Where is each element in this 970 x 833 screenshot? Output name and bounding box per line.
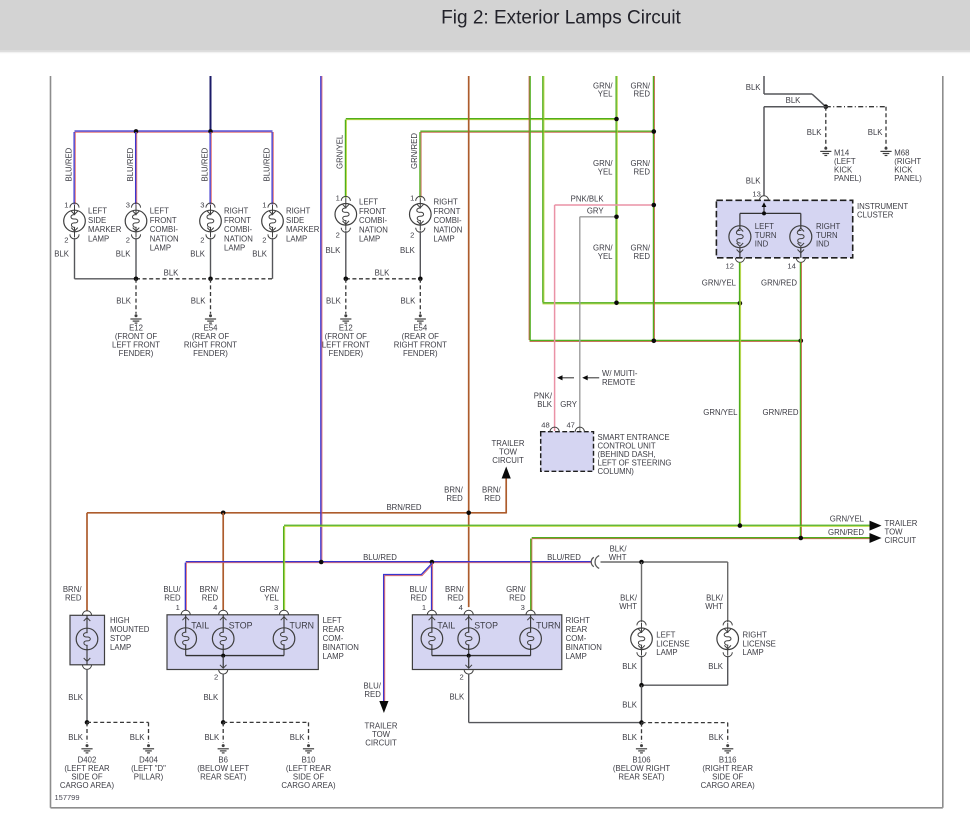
svg-text:GRN/RED: GRN/RED xyxy=(410,133,419,169)
svg-text:2: 2 xyxy=(126,235,130,244)
svg-text:BLK: BLK xyxy=(203,693,219,702)
lamp L1 (LEFT SIDE MARKER LAMP) xyxy=(70,203,79,208)
svg-text:1: 1 xyxy=(64,200,68,209)
wire BRN/RED trailer stem xyxy=(505,478,507,514)
svg-text:COM-: COM- xyxy=(566,634,587,643)
lamp TURN bulb xyxy=(283,615,285,633)
svg-text:BLK: BLK xyxy=(746,83,762,92)
svg-text:RED: RED xyxy=(634,90,651,99)
svg-text:1: 1 xyxy=(410,193,414,202)
svg-text:LAMP: LAMP xyxy=(434,235,455,244)
svg-text:BLK: BLK xyxy=(116,297,132,306)
cluster internal feed arrow xyxy=(763,205,765,214)
svg-text:4: 4 xyxy=(213,603,217,612)
svg-text:BLK: BLK xyxy=(68,693,84,702)
svg-text:3: 3 xyxy=(200,200,204,209)
annotation arrow on PNK/BLK xyxy=(560,377,574,379)
wire BLU/RED trailer branch xyxy=(384,564,432,702)
left box pin2 exit xyxy=(222,656,224,669)
svg-text:GRN/RED: GRN/RED xyxy=(763,408,799,417)
box left rear combination lamp xyxy=(167,615,318,670)
node GRN/YEL bus at pin12 wire xyxy=(738,523,743,528)
node GRN/YEL joins riser xyxy=(614,117,619,122)
svg-text:NATION: NATION xyxy=(224,234,253,243)
svg-text:GRN/YEL: GRN/YEL xyxy=(830,515,865,524)
wire GRN/RED riser xyxy=(652,76,654,341)
svg-text:WHT: WHT xyxy=(619,602,637,611)
wire BLK lamp bottom xyxy=(210,238,212,279)
ground B6 xyxy=(222,744,225,747)
svg-text:RED: RED xyxy=(634,252,651,261)
wire BLU/RED trunk from top xyxy=(320,76,322,561)
box high mounted stop lamp xyxy=(70,615,105,665)
svg-text:TAIL: TAIL xyxy=(191,620,209,630)
svg-text:GRY: GRY xyxy=(560,400,578,409)
wire BLK dashed to M14 xyxy=(825,107,827,147)
ground B10 xyxy=(307,744,310,747)
lamp high mount bulb xyxy=(86,615,88,633)
node ground chain B6 xyxy=(221,720,226,725)
connector break symbol xyxy=(591,557,594,566)
svg-text:LAMP: LAMP xyxy=(150,244,171,253)
ground B116 xyxy=(726,744,729,747)
svg-text:157799: 157799 xyxy=(55,793,80,802)
node GRN/RED line at pin14 wire xyxy=(799,339,804,344)
wire BLK dash-dot to M68 xyxy=(826,106,886,108)
svg-text:LAMP: LAMP xyxy=(656,648,677,657)
lamp L3 (RIGHT FRONT COMBI- NATION LAMP) xyxy=(206,203,215,208)
svg-text:BLU/RED: BLU/RED xyxy=(363,553,397,562)
svg-text:RIGHT: RIGHT xyxy=(743,631,767,640)
svg-text:BLK: BLK xyxy=(537,400,553,409)
svg-text:GRN/YEL: GRN/YEL xyxy=(702,279,737,288)
wire BLK down xyxy=(641,685,643,722)
wire dashed to B116 xyxy=(642,722,728,724)
svg-text:WHT: WHT xyxy=(609,553,627,562)
wire dashed to B10 xyxy=(223,721,308,723)
svg-text:4: 4 xyxy=(459,603,463,612)
wire BLK/WHT elbow to right license xyxy=(727,562,729,622)
svg-text:BLK: BLK xyxy=(54,250,70,259)
node junction front bus at lamp3 xyxy=(208,129,213,134)
svg-text:BLK: BLK xyxy=(326,246,342,255)
ground E54 xyxy=(419,314,422,317)
lamp left turn indicator xyxy=(739,213,741,229)
svg-text:BLK: BLK xyxy=(190,250,206,259)
wire GRN/RED to R turn pin xyxy=(530,539,532,611)
svg-text:TAIL: TAIL xyxy=(437,620,455,630)
ground E12 xyxy=(135,314,138,317)
wire GRN/YEL riser xyxy=(615,76,617,303)
svg-text:CIRCUIT: CIRCUIT xyxy=(885,536,917,545)
svg-text:RED: RED xyxy=(509,594,526,603)
svg-text:PANEL): PANEL) xyxy=(894,174,922,183)
svg-text:NATION: NATION xyxy=(150,234,179,243)
wire BLU/RED to L tail pin xyxy=(184,563,186,611)
node license grounds join xyxy=(639,683,644,688)
lamp STOP bulb xyxy=(468,615,470,633)
node BRN/RED at trunk xyxy=(466,511,471,516)
lamp L4 (RIGHT SIDE MARKER LAMP) xyxy=(268,203,277,208)
node PNK/BLK taps GRN/RED xyxy=(652,203,657,208)
lamp front comb 6 xyxy=(416,196,425,201)
svg-text:STOP: STOP xyxy=(474,620,498,630)
wire dashed to B106 xyxy=(641,723,643,743)
svg-text:BLK: BLK xyxy=(709,733,725,742)
node BLK/WHT at left license xyxy=(639,560,644,565)
svg-text:2: 2 xyxy=(410,230,414,239)
svg-text:47: 47 xyxy=(566,421,574,430)
node junction front bus at lamp2 xyxy=(134,129,139,134)
svg-text:LAMP: LAMP xyxy=(566,652,587,661)
svg-text:BLK: BLK xyxy=(375,268,391,277)
node GRN/YEL riser to pin12 line xyxy=(614,301,619,306)
wire BLU/RED drop to L front comb lamp xyxy=(135,132,137,204)
svg-text:FENDER): FENDER) xyxy=(328,349,363,358)
svg-text:GRY: GRY xyxy=(587,206,605,215)
wire GRN/YEL trunk from top xyxy=(542,76,544,302)
svg-text:WHT: WHT xyxy=(705,602,723,611)
node bus at trunk xyxy=(319,560,324,565)
wire BLK right box pin2 down xyxy=(468,674,470,723)
svg-text:LAMP: LAMP xyxy=(323,652,344,661)
svg-text:RIGHT: RIGHT xyxy=(286,207,310,216)
svg-text:1: 1 xyxy=(176,603,180,612)
node GRN/RED riser to pin14 line xyxy=(652,339,657,344)
wire BLK high mount to ground xyxy=(86,669,88,722)
svg-text:13: 13 xyxy=(752,189,760,198)
wire BRN/RED bus xyxy=(87,512,506,514)
svg-text:BLK: BLK xyxy=(746,177,762,186)
svg-text:REAR SEAT): REAR SEAT) xyxy=(200,773,247,782)
svg-text:BLK: BLK xyxy=(622,700,638,709)
svg-text:LAMP: LAMP xyxy=(224,244,245,253)
svg-text:FENDER): FENDER) xyxy=(119,349,154,358)
svg-text:BLK: BLK xyxy=(449,693,465,702)
svg-text:YEL: YEL xyxy=(598,90,613,99)
lamp TURN bulb xyxy=(530,615,532,633)
wire GRN/RED drop xyxy=(419,132,421,198)
wire BLK down to pin13 xyxy=(763,107,765,196)
svg-text:CIRCUIT: CIRCUIT xyxy=(365,738,397,747)
svg-text:PANEL): PANEL) xyxy=(834,174,862,183)
cluster internal tee xyxy=(740,212,801,214)
svg-text:TURN: TURN xyxy=(755,231,777,240)
svg-text:LAMP: LAMP xyxy=(359,235,380,244)
wire GRN/RED from pin14 xyxy=(799,262,801,537)
svg-text:STOP: STOP xyxy=(229,620,253,630)
lamp STOP bulb xyxy=(222,615,224,633)
svg-text:LAMP: LAMP xyxy=(743,648,764,657)
svg-text:RIGHT: RIGHT xyxy=(816,222,840,231)
svg-text:GRN/YEL: GRN/YEL xyxy=(703,408,738,417)
svg-text:3: 3 xyxy=(126,200,130,209)
svg-text:BLK: BLK xyxy=(204,733,220,742)
svg-text:BLK: BLK xyxy=(708,662,724,671)
node right box pin2 junction xyxy=(467,654,471,658)
svg-text:BLK: BLK xyxy=(401,297,417,306)
svg-text:BLK: BLK xyxy=(290,733,306,742)
wire GRN/YEL to L turn pin xyxy=(283,526,285,610)
svg-text:LEFT: LEFT xyxy=(150,207,169,216)
wire BLK from top xyxy=(763,76,765,94)
wire left license ground xyxy=(641,656,643,686)
node left box pin2 junction xyxy=(221,654,225,658)
svg-text:YEL: YEL xyxy=(598,168,613,177)
node bus dot xyxy=(418,277,423,282)
wire right license ground xyxy=(727,656,729,686)
node GRN/RED joins riser xyxy=(652,129,657,134)
svg-text:RED: RED xyxy=(164,594,181,603)
svg-text:MOUNTED: MOUNTED xyxy=(110,625,150,634)
node BLK junction xyxy=(824,104,829,109)
arrow GRN/YEL to trailer xyxy=(870,521,882,531)
svg-text:W/ MUITI-: W/ MUITI- xyxy=(602,369,638,378)
wire BLU/RED front bus xyxy=(75,130,273,132)
svg-text:LEFT: LEFT xyxy=(359,198,378,207)
wire dashed to D402 xyxy=(86,722,88,742)
svg-text:PNK/BLK: PNK/BLK xyxy=(571,195,605,204)
svg-text:FENDER): FENDER) xyxy=(403,349,438,358)
svg-text:BLK: BLK xyxy=(622,662,638,671)
svg-text:NATION: NATION xyxy=(434,225,463,234)
node GRY taps GRN/YEL xyxy=(614,215,619,220)
svg-text:1: 1 xyxy=(336,193,340,202)
svg-text:48: 48 xyxy=(541,421,549,430)
svg-text:SIDE: SIDE xyxy=(88,216,106,225)
svg-text:CLUSTER: CLUSTER xyxy=(857,210,894,219)
wire GRN/YEL from pin12 xyxy=(739,262,741,525)
svg-text:LAMP: LAMP xyxy=(110,643,131,652)
diagram border frame xyxy=(50,76,52,808)
svg-text:3: 3 xyxy=(521,603,525,612)
node bus dot lamp2 xyxy=(134,277,139,282)
arrow trailer tow up xyxy=(502,467,511,479)
svg-text:RED: RED xyxy=(65,594,82,603)
wire BRN/RED drop to L stop pin xyxy=(222,513,224,610)
arrow trailer tow down xyxy=(379,701,388,713)
node bus dot lamp3 xyxy=(208,277,213,282)
wire BLK elbow xyxy=(764,93,812,95)
svg-text:FRONT: FRONT xyxy=(359,207,386,216)
svg-text:BINATION: BINATION xyxy=(323,643,359,652)
svg-text:FRONT: FRONT xyxy=(434,207,461,216)
wire BLK/WHT to left license xyxy=(641,562,643,622)
svg-text:HIGH: HIGH xyxy=(110,616,130,625)
svg-text:BLU/RED: BLU/RED xyxy=(200,147,209,181)
wire BLK lamp bottom xyxy=(345,231,347,279)
ground E54 xyxy=(209,314,212,317)
svg-text:REAR: REAR xyxy=(323,625,345,634)
lamp right turn indicator xyxy=(800,213,802,229)
svg-text:BLK: BLK xyxy=(116,250,132,259)
svg-text:COMBI-: COMBI- xyxy=(224,225,253,234)
lamp L2 (LEFT FRONT COMBI- NATION LAMP) xyxy=(131,203,140,208)
svg-text:YEL: YEL xyxy=(264,594,279,603)
svg-text:COMBI-: COMBI- xyxy=(434,216,463,225)
svg-text:SIDE: SIDE xyxy=(286,216,304,225)
wire GRN/YEL horiz to L front comb xyxy=(346,118,617,120)
wire GRN/YEL tail bus xyxy=(284,524,870,526)
wire BRN/RED trunk from top xyxy=(468,76,470,607)
node GRN/YEL line at pin12 wire xyxy=(738,301,743,306)
svg-text:TURN: TURN xyxy=(536,620,560,630)
wire GRN/RED trunk from top xyxy=(528,76,530,340)
svg-text:BINATION: BINATION xyxy=(566,643,602,652)
svg-text:LEFT: LEFT xyxy=(323,616,342,625)
svg-text:2: 2 xyxy=(214,672,218,681)
node ground chain D402 xyxy=(85,720,90,725)
svg-text:RED: RED xyxy=(446,494,463,503)
svg-text:GRN/RED: GRN/RED xyxy=(761,279,797,288)
svg-text:BLK: BLK xyxy=(786,96,802,105)
ground D404 xyxy=(147,744,150,747)
svg-text:COMBI-: COMBI- xyxy=(359,216,388,225)
svg-text:TURN: TURN xyxy=(816,231,838,240)
svg-text:RED: RED xyxy=(484,494,501,503)
wire GRY horiz xyxy=(580,216,617,218)
svg-text:FRONT: FRONT xyxy=(224,216,251,225)
node bus at R tail drop xyxy=(430,560,435,565)
svg-text:LICENSE: LICENSE xyxy=(743,639,776,648)
svg-text:BLK: BLK xyxy=(807,128,823,137)
wire BLK to cluster drop xyxy=(764,106,826,108)
wire BLU feed from top (navy) xyxy=(210,76,212,131)
node bus dot xyxy=(344,277,349,282)
svg-text:COMBI-: COMBI- xyxy=(150,225,179,234)
ground M14 xyxy=(824,147,827,150)
svg-text:BLK: BLK xyxy=(622,733,638,742)
svg-text:LAMP: LAMP xyxy=(88,234,109,243)
svg-text:RIGHT: RIGHT xyxy=(566,616,590,625)
svg-text:GRN/RED: GRN/RED xyxy=(828,528,864,537)
svg-text:RED: RED xyxy=(410,594,427,603)
svg-text:2: 2 xyxy=(459,672,463,681)
svg-text:CIRCUIT: CIRCUIT xyxy=(492,456,524,465)
node GRN/RED bus at pin14 wire xyxy=(799,536,804,541)
wire GRN/YEL trunk turn right xyxy=(543,302,740,304)
svg-text:BLK: BLK xyxy=(68,733,84,742)
svg-text:YEL: YEL xyxy=(598,252,613,261)
svg-text:BLU/RED: BLU/RED xyxy=(262,147,271,181)
wire BLU/RED drop to R front comb lamp xyxy=(209,132,211,204)
wire BLU/RED drop to L side marker lamp xyxy=(73,132,75,204)
svg-text:LICENSE: LICENSE xyxy=(656,639,689,648)
node BRN/RED at stop drop xyxy=(221,511,226,516)
svg-text:RIGHT: RIGHT xyxy=(224,207,248,216)
wire PNK/BLK horiz xyxy=(555,204,654,206)
svg-text:COM-: COM- xyxy=(323,634,344,643)
wire GRN/RED tail bus xyxy=(532,537,870,539)
svg-text:BLK: BLK xyxy=(130,733,146,742)
svg-text:BLK: BLK xyxy=(326,297,342,306)
wire BLK dashed to ground xyxy=(419,279,421,314)
wire BLK lamp bottom xyxy=(419,231,421,279)
svg-text:BLK: BLK xyxy=(400,246,416,255)
svg-text:STOP: STOP xyxy=(110,634,131,643)
svg-text:LEFT: LEFT xyxy=(755,222,774,231)
svg-text:LEFT: LEFT xyxy=(88,207,107,216)
wire GRN/YEL drop xyxy=(344,120,346,198)
svg-text:BLK: BLK xyxy=(252,250,268,259)
svg-text:BLU/RED: BLU/RED xyxy=(547,553,581,562)
box right rear combination lamp xyxy=(412,615,561,670)
arrow GRN/RED to trailer xyxy=(870,533,882,543)
wire BLK lamp bottom xyxy=(272,238,274,279)
wire BLK dashed to ground xyxy=(210,279,212,314)
svg-text:BRN/RED: BRN/RED xyxy=(386,503,421,512)
svg-text:IND: IND xyxy=(755,240,769,249)
ground E12 xyxy=(344,314,347,317)
svg-text:REAR SEAT): REAR SEAT) xyxy=(618,773,665,782)
wire BLK dashed down M68 xyxy=(885,107,887,147)
wire BLU/RED to R tail pin xyxy=(431,563,433,611)
svg-text:FENDER): FENDER) xyxy=(193,349,228,358)
svg-text:GRN/YEL: GRN/YEL xyxy=(336,134,345,169)
ground B106 xyxy=(640,744,643,747)
svg-text:3: 3 xyxy=(274,603,278,612)
svg-text:RED: RED xyxy=(202,594,219,603)
svg-text:1: 1 xyxy=(422,603,426,612)
svg-text:BLK: BLK xyxy=(164,268,180,277)
svg-text:PILLAR): PILLAR) xyxy=(134,773,164,782)
svg-text:FRONT: FRONT xyxy=(150,216,177,225)
left box internal bus xyxy=(186,655,284,657)
svg-text:CARGO AREA): CARGO AREA) xyxy=(60,781,115,790)
svg-text:IND: IND xyxy=(816,240,830,249)
wire BRN/RED to high mount lamp xyxy=(86,513,88,611)
svg-text:CARGO AREA): CARGO AREA) xyxy=(701,781,756,790)
svg-text:2: 2 xyxy=(64,235,68,244)
svg-text:BLU/RED: BLU/RED xyxy=(64,147,73,181)
node ground chain B106 xyxy=(639,720,644,725)
wire BLU/RED drop to R side marker lamp xyxy=(271,132,273,204)
svg-text:REMOTE: REMOTE xyxy=(602,378,635,387)
wire BLK ground bus (dashed) xyxy=(346,278,421,280)
svg-text:LAMP: LAMP xyxy=(286,234,307,243)
svg-text:14: 14 xyxy=(787,262,795,271)
wire BLK lamp bottom xyxy=(74,238,76,279)
lamp right license xyxy=(723,621,732,626)
wire GRN/RED horiz to R front comb xyxy=(420,130,654,132)
box instrument cluster xyxy=(716,200,852,257)
wire BLK left box pin2 down xyxy=(222,674,224,723)
wire PNK/BLK down to SECU pin48 xyxy=(554,205,556,431)
svg-text:LEFT: LEFT xyxy=(656,631,675,640)
svg-text:COLUMN): COLUMN) xyxy=(598,467,635,476)
wire dashed to D404 xyxy=(87,721,149,723)
svg-text:NATION: NATION xyxy=(359,225,388,234)
wire BLK ground bus left (dashed) xyxy=(136,278,273,280)
box U1 smart entrance control unit xyxy=(541,432,594,472)
wire dashed to B6 xyxy=(222,722,224,742)
ground M68 xyxy=(885,147,888,150)
svg-text:12: 12 xyxy=(726,262,734,271)
svg-text:REAR: REAR xyxy=(566,625,588,634)
lamp front comb 5 xyxy=(341,196,350,201)
svg-text:BLK: BLK xyxy=(868,128,884,137)
lamp left license xyxy=(637,621,646,626)
annotation arrow on GRY xyxy=(585,377,599,379)
wire BLK/WHT horiz xyxy=(601,561,728,563)
svg-text:RIGHT: RIGHT xyxy=(434,198,458,207)
svg-text:MARKER: MARKER xyxy=(286,225,320,234)
svg-text:BLK: BLK xyxy=(191,297,207,306)
svg-text:CARGO AREA): CARGO AREA) xyxy=(281,781,336,790)
lamp TAIL bulb xyxy=(185,615,187,633)
ground D402 xyxy=(86,744,89,747)
right box internal bus xyxy=(432,655,531,657)
